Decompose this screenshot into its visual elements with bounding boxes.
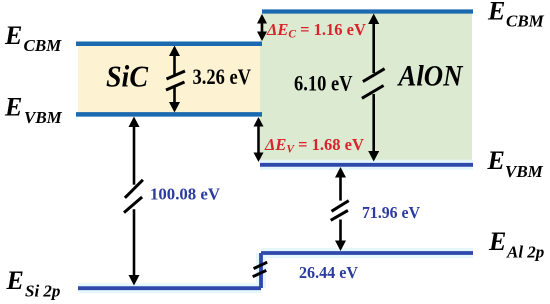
svg-text:71.96 eV: 71.96 eV bbox=[362, 203, 421, 222]
svg-text:VBM: VBM bbox=[24, 108, 63, 127]
arrow 3.26 eV bandgap (SiC) bbox=[166, 46, 185, 113]
label E_VBM left bbox=[4, 93, 63, 128]
label E_Si 2p bottom left bbox=[6, 266, 61, 301]
svg-text:CBM: CBM bbox=[506, 12, 545, 31]
svg-text:26.44 eV: 26.44 eV bbox=[299, 263, 359, 282]
wire E_Si 2p core level line bbox=[78, 286, 261, 290]
arrow Delta E_V valence band offset bbox=[254, 117, 264, 162]
svg-text:SiC: SiC bbox=[106, 59, 148, 94]
svg-text:ΔEV = 1.68 eV: ΔEV = 1.68 eV bbox=[264, 135, 364, 156]
svg-text:ΔEC = 1.16 eV: ΔEC = 1.16 eV bbox=[266, 20, 366, 41]
halo glow under core-level lines bbox=[78, 165, 473, 288]
arrow 100.08 eV (E_VBM SiC to E_Si 2p) bbox=[124, 117, 143, 286]
svg-text:CBM: CBM bbox=[24, 36, 63, 55]
arrow 71.96 eV (E_VBM AlON to E_Al 2p) bbox=[331, 167, 349, 251]
svg-text:E: E bbox=[488, 227, 506, 256]
svg-text:100.08 eV: 100.08 eV bbox=[150, 185, 221, 204]
svg-text:E: E bbox=[6, 266, 24, 295]
svg-text:E: E bbox=[4, 21, 22, 50]
label E_CBM right bbox=[487, 0, 545, 31]
label AlON bbox=[397, 60, 464, 93]
label E_CBM left bbox=[4, 21, 62, 55]
wire E_VBM level line (SiC) bbox=[76, 112, 262, 117]
arrow 6.10 eV bandgap (AlON) bbox=[362, 14, 385, 162]
value 100.08 eV bbox=[150, 185, 221, 204]
value 26.44 eV bbox=[299, 263, 359, 282]
value 71.96 eV bbox=[362, 203, 421, 222]
label SiC bbox=[106, 59, 148, 94]
value Delta E_C = 1.16 eV bbox=[266, 20, 366, 41]
SiC region box bbox=[78, 46, 262, 113]
label E_VBM right bbox=[487, 146, 544, 181]
svg-text:VBM: VBM bbox=[505, 162, 544, 181]
break marks on step connector bbox=[253, 262, 268, 277]
svg-text:6.10 eV: 6.10 eV bbox=[294, 71, 353, 96]
svg-text:AlON: AlON bbox=[397, 60, 464, 93]
svg-text:E: E bbox=[487, 0, 505, 26]
svg-text:Al 2p: Al 2p bbox=[506, 243, 544, 262]
wire E_CBM level line (SiC) bbox=[76, 41, 262, 46]
label E_Al 2p right bbox=[488, 227, 544, 262]
value Delta E_V = 1.68 eV bbox=[264, 135, 364, 156]
svg-text:Si 2p: Si 2p bbox=[25, 282, 60, 301]
wire E_Al 2p core level line bbox=[261, 251, 473, 255]
arrow Delta E_C conduction band offset bbox=[257, 14, 267, 41]
wire E_VBM level line (AlON) bbox=[260, 163, 473, 167]
AlON region box bbox=[260, 14, 472, 163]
value 6.10 eV bbox=[294, 71, 353, 96]
svg-text:3.26 eV: 3.26 eV bbox=[193, 64, 252, 89]
svg-text:E: E bbox=[487, 146, 505, 175]
svg-text:E: E bbox=[4, 93, 22, 122]
wire E_CBM level line (AlON) bbox=[262, 9, 473, 13]
value 3.26 eV bbox=[193, 64, 252, 89]
wire step connector between E_Al 2p and E_Si 2p bbox=[259, 253, 263, 288]
